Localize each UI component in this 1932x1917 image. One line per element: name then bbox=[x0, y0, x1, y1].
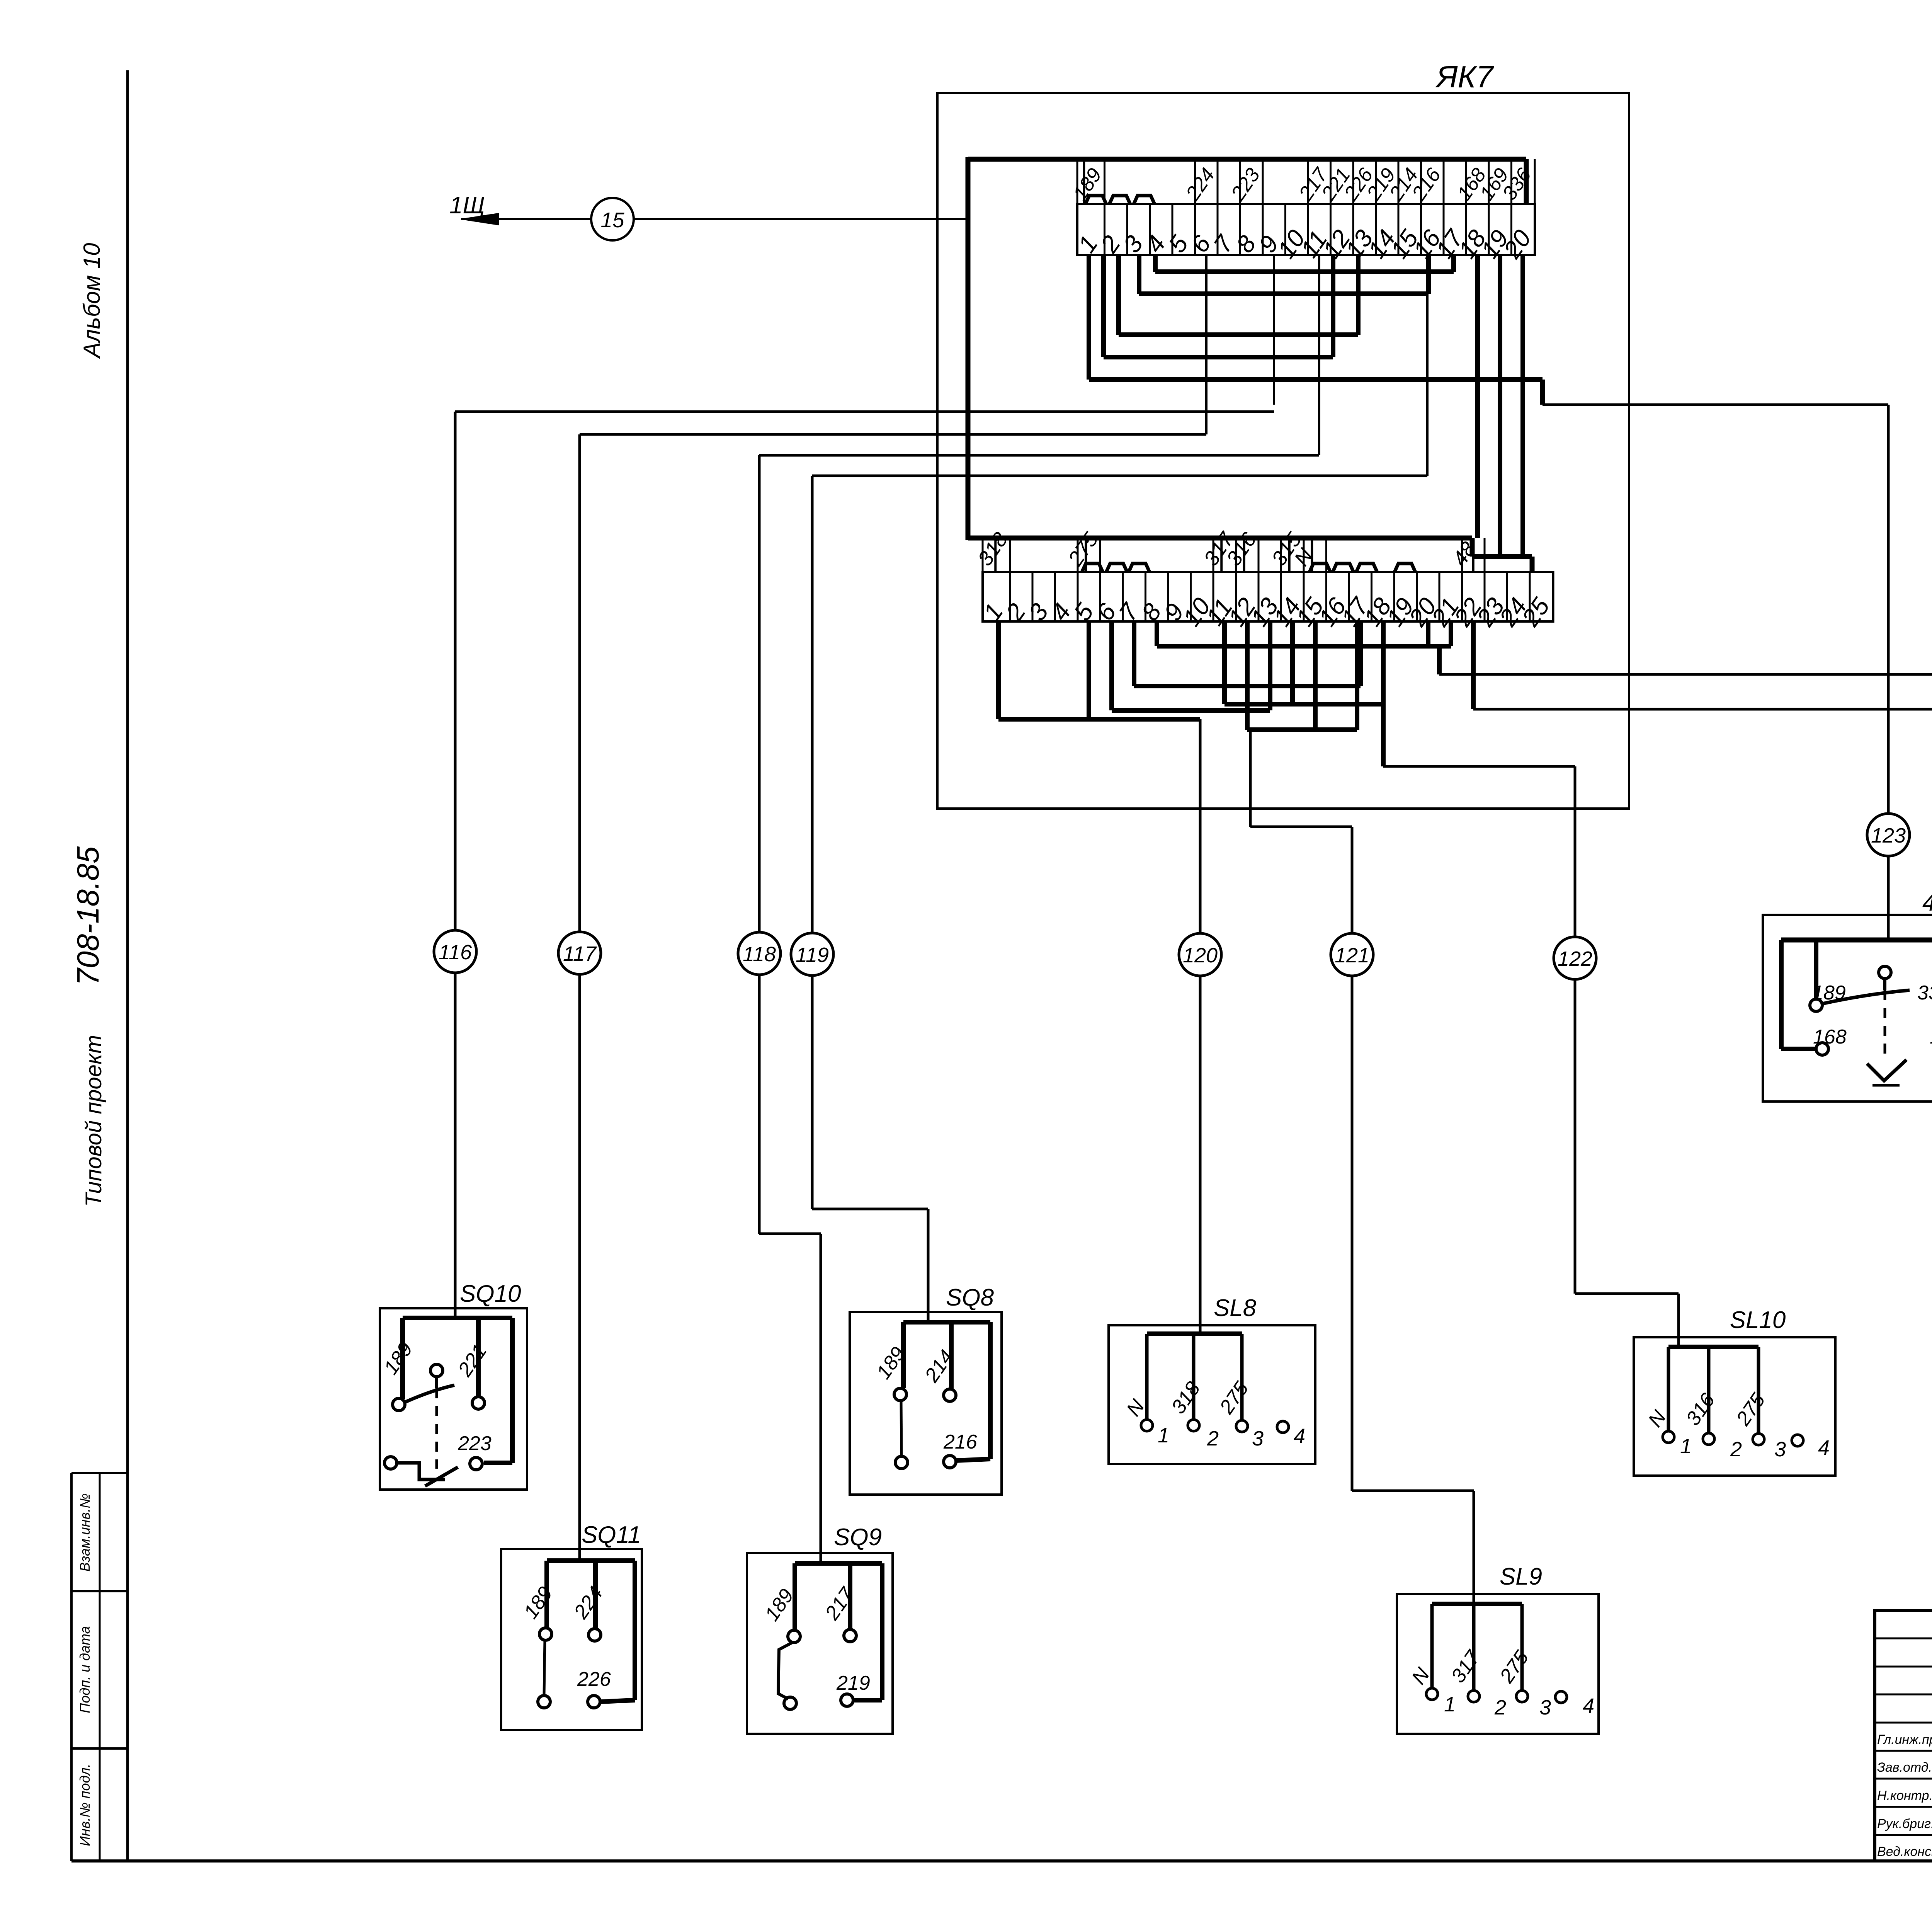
stamp column divider bbox=[99, 1473, 101, 1861]
svg-text:123: 123 bbox=[1871, 824, 1906, 847]
arrowhead 1Щ bbox=[461, 213, 498, 225]
wire 120 vertical to SL8 bbox=[1199, 719, 1202, 1334]
svg-text:SQ8: SQ8 bbox=[946, 1284, 994, 1311]
svg-text:SQ10: SQ10 bbox=[460, 1280, 521, 1307]
stamp row divider 2 bbox=[71, 1747, 128, 1750]
svg-text:119: 119 bbox=[796, 943, 829, 967]
frame bottom border bbox=[71, 1859, 1932, 1863]
svg-text:Н.контр.: Н.контр. bbox=[1877, 1788, 1932, 1803]
svg-text:Взам.инв.№: Взам.инв.№ bbox=[77, 1493, 93, 1572]
svg-text:2: 2 bbox=[1494, 1696, 1506, 1719]
nest wire t4-t17 bbox=[1153, 255, 1158, 272]
bottom nest N2 t7-t17 bbox=[1132, 621, 1136, 686]
wire 116 vertical to SQ10 bbox=[454, 412, 457, 1318]
SQ10 switch arm bbox=[405, 1385, 454, 1402]
svg-text:116: 116 bbox=[439, 941, 472, 964]
jumper links top strip bbox=[1085, 196, 1106, 204]
wire t20 down to bus bbox=[1520, 255, 1525, 557]
svg-text:4: 4 bbox=[1294, 1425, 1305, 1448]
wire 121 jog 2 bbox=[1352, 1490, 1474, 1492]
wire 119 jog bbox=[812, 1208, 928, 1210]
wire 119 vertical bbox=[811, 476, 814, 1209]
svg-text:120: 120 bbox=[1183, 944, 1218, 967]
svg-text:Вед.констр: Вед.констр bbox=[1877, 1844, 1932, 1859]
wire 124 horizontal bbox=[1473, 708, 1932, 711]
wire 121 to SL9 bbox=[1473, 1491, 1475, 1604]
bottom bus right segment bbox=[1472, 554, 1532, 559]
cable circle 121 bbox=[1331, 933, 1373, 976]
stamp column top edge bbox=[71, 1472, 128, 1474]
wire 125 horizontal bbox=[1439, 673, 1932, 676]
svg-text:1: 1 bbox=[1680, 1435, 1692, 1458]
svg-text:SL9: SL9 bbox=[1500, 1563, 1542, 1590]
svg-text:4-SQ2: 4-SQ2 bbox=[1922, 889, 1932, 916]
svg-text:Зав.отд.: Зав.отд. bbox=[1877, 1760, 1932, 1775]
svg-text:121: 121 bbox=[1335, 944, 1369, 967]
svg-text:168: 168 bbox=[1813, 1026, 1847, 1048]
cable circle 120 bbox=[1179, 933, 1221, 976]
thin wire t16 down bbox=[1426, 294, 1429, 476]
svg-text:336: 336 bbox=[1917, 982, 1932, 1004]
svg-text:117: 117 bbox=[563, 942, 597, 965]
frame left border bbox=[126, 70, 129, 1861]
wire 123 horizontal bbox=[1543, 403, 1888, 406]
svg-text:223: 223 bbox=[457, 1432, 492, 1455]
wire t18 down to bus bbox=[1475, 255, 1480, 538]
SQ9 bent wire bbox=[778, 1643, 792, 1699]
svg-text:Подп. и дата: Подп. и дата bbox=[77, 1626, 93, 1713]
wire 121 jog bbox=[1250, 826, 1352, 828]
svg-text:169: 169 bbox=[1930, 1026, 1932, 1048]
thin wire t9 down bbox=[1273, 255, 1275, 405]
svg-text:189: 189 bbox=[1812, 982, 1846, 1004]
svg-text:Инв.№ подл.: Инв.№ подл. bbox=[77, 1764, 93, 1846]
wire 121 vertical bbox=[1351, 827, 1354, 1491]
svg-text:118: 118 bbox=[743, 943, 776, 966]
cable circle 119 bbox=[791, 933, 833, 976]
nest wire t1b-t20 bbox=[1087, 255, 1091, 380]
4-SQ2 chevron bbox=[1867, 1060, 1906, 1081]
cable circle 15 bbox=[591, 198, 634, 240]
bottom strip bus bbox=[968, 536, 1472, 541]
wire 117 horizontal bbox=[580, 433, 1206, 436]
svg-text:3: 3 bbox=[1774, 1438, 1786, 1461]
bottom nest N5 t12-t15 and cable 121 takeoff bbox=[1245, 621, 1250, 730]
jumper links bottom strip bbox=[1082, 564, 1103, 572]
wire 118 to SQ9 bbox=[820, 1234, 822, 1563]
top terminal strip body bbox=[1077, 204, 1535, 255]
svg-text:4: 4 bbox=[1583, 1694, 1594, 1718]
bottom bus step down bbox=[1470, 538, 1475, 557]
svg-text:216: 216 bbox=[943, 1431, 977, 1453]
nest wire t1-t12 bbox=[1101, 255, 1106, 357]
cable circle 118 bbox=[738, 932, 781, 975]
svg-text:1: 1 bbox=[1158, 1424, 1169, 1447]
wire 121 drop bbox=[1249, 730, 1252, 827]
left bus vertical bbox=[966, 157, 971, 540]
svg-text:SQ11: SQ11 bbox=[582, 1522, 641, 1548]
svg-text:Рук.бриг.: Рук.бриг. bbox=[1877, 1817, 1932, 1831]
bottom label row left edge bbox=[982, 538, 984, 572]
svg-text:226: 226 bbox=[577, 1668, 611, 1691]
terminal box ЯК7 outline bbox=[937, 93, 1629, 809]
wire 122 jog bbox=[1575, 1292, 1679, 1295]
top label row right edge bbox=[1534, 159, 1536, 204]
wire 119 to SQ8 bbox=[927, 1209, 930, 1322]
svg-text:2: 2 bbox=[1730, 1438, 1742, 1461]
svg-text:Типовой проект: Типовой проект bbox=[81, 1035, 106, 1207]
cable circle 122 bbox=[1554, 937, 1596, 979]
stamp column left edge bbox=[70, 1473, 73, 1861]
wire 189 to bus bbox=[1083, 159, 1085, 204]
wire t19 down to bus bbox=[1498, 255, 1502, 557]
4-SQ2 switch arm bbox=[1822, 990, 1910, 1004]
svg-text:1: 1 bbox=[1444, 1693, 1456, 1716]
wire 117 vertical to SQ11 bbox=[578, 434, 581, 1561]
wire 122 vertical bbox=[1574, 766, 1577, 1294]
top bus of box bbox=[968, 157, 1526, 162]
svg-text:Гл.инж.пр.: Гл.инж.пр. bbox=[1877, 1732, 1932, 1747]
nest wire t2-t13 bbox=[1116, 255, 1121, 335]
cable circle 123 bbox=[1867, 814, 1910, 856]
svg-text:SL8: SL8 bbox=[1214, 1295, 1257, 1321]
wire 119 horizontal bbox=[812, 475, 1427, 477]
svg-text:15: 15 bbox=[600, 208, 624, 232]
svg-text:708-18.85: 708-18.85 bbox=[71, 846, 105, 986]
wire from 1Щ to box bbox=[461, 218, 968, 220]
svg-text:122: 122 bbox=[1558, 947, 1592, 970]
title block bbox=[1875, 1611, 1932, 1861]
bottom nest N6 to cable 120 bbox=[996, 621, 1001, 719]
bottom bus right drop bbox=[1530, 557, 1535, 572]
svg-text:3: 3 bbox=[1252, 1427, 1264, 1450]
wire 118 jog bbox=[759, 1233, 821, 1235]
wire 122 horizontal bbox=[1383, 765, 1575, 768]
wire 118 vertical bbox=[758, 455, 761, 1234]
bottom nest N1 t8-t20-t21 and cable 125 takeoff bbox=[1155, 621, 1159, 646]
wire 122 to SL10 bbox=[1677, 1294, 1680, 1347]
thin wire t6 down bbox=[1205, 255, 1207, 434]
svg-text:3: 3 bbox=[1539, 1696, 1551, 1719]
svg-text:1Щ: 1Щ bbox=[449, 192, 485, 219]
nest wire t3-t16 bbox=[1137, 255, 1141, 294]
cable circle 117 bbox=[558, 932, 601, 974]
top bus right drop bbox=[1524, 159, 1529, 204]
stamp row divider 1 bbox=[71, 1590, 128, 1592]
bottom terminal strip body bbox=[983, 572, 1553, 621]
top label row left edge bbox=[1077, 159, 1078, 204]
svg-text:ЯК7: ЯК7 bbox=[1435, 60, 1494, 94]
SQ10 chevron bbox=[425, 1467, 458, 1486]
bottom nest N4 t22 and cable 124 bbox=[1471, 621, 1476, 709]
svg-text:SQ9: SQ9 bbox=[834, 1524, 882, 1551]
cable circle 116 bbox=[434, 930, 476, 973]
wire 118 horizontal bbox=[759, 454, 1319, 457]
bottom nest N6b t6-t13 bbox=[1109, 621, 1114, 710]
wire 123 vertical to 4-SQ2 bbox=[1887, 405, 1890, 940]
svg-text:219: 219 bbox=[836, 1672, 870, 1694]
wire 116 horizontal bbox=[455, 410, 1274, 413]
svg-text:2: 2 bbox=[1207, 1427, 1219, 1450]
svg-text:SL10: SL10 bbox=[1730, 1307, 1786, 1333]
svg-text:4: 4 bbox=[1818, 1436, 1830, 1459]
bottom nest N3 t11-t14-t18 and cable 122 takeoff bbox=[1222, 621, 1227, 704]
svg-text:Альбом 10: Альбом 10 bbox=[79, 243, 105, 359]
cable 123 takeoff from nest bbox=[1540, 380, 1545, 405]
thin wire t11 down bbox=[1318, 255, 1320, 455]
SQ10 lower contact wire bbox=[397, 1463, 445, 1479]
wires from labelled bottom terminals to bus bbox=[994, 538, 997, 572]
